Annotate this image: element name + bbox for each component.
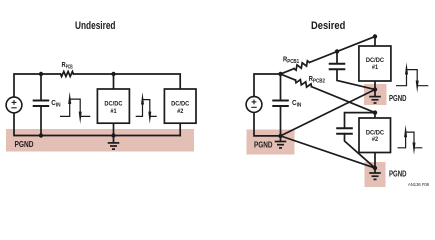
svg-text:#1: #1 <box>372 64 379 71</box>
wire: decoupling cap C1 top stub <box>336 52 338 64</box>
junction: decoupling cap C1 tap on R_PCB1 trace <box>335 49 339 53</box>
switching current waveform glyph 1 <box>60 99 90 116</box>
pink highlight: star ground <box>247 130 295 155</box>
DC/DC converter #1 box (right) <box>359 46 391 81</box>
return trace PGND1 to star <box>281 90 376 136</box>
decoupling capacitor C1 plates <box>329 64 346 70</box>
junction: C_IN ground node <box>39 133 43 137</box>
svg-text:#1: #1 <box>110 108 117 115</box>
svg-text:AN136 F08: AN136 F08 <box>408 182 430 187</box>
wire: decoupling cap C2 bottom to PGND2 <box>345 134 376 168</box>
decoupling capacitor C2 plates <box>336 128 353 134</box>
junction: input node (source/C_IN/R_PCB1/R_PCB2) <box>278 72 282 76</box>
capacitor C_IN plates <box>33 101 50 107</box>
ground symbol PGND1 <box>369 90 381 104</box>
trace R_PCB1 lead-out to node above DC/DC #1 <box>310 37 376 63</box>
junction: DC/DC #1 input node <box>111 72 115 76</box>
switching waveform at DC/DC #1 output <box>396 70 428 86</box>
trace R_PCB1 lead-in <box>281 69 295 74</box>
ground symbol (left diagram) <box>108 136 120 150</box>
svg-text:DC/DC: DC/DC <box>171 101 190 108</box>
wire: C_IN top stub <box>280 74 282 100</box>
trace R_PCB2 lead-out to node above DC/DC #2 <box>312 87 376 113</box>
svg-text:Undesired: Undesired <box>75 20 116 32</box>
node: PGND2 <box>373 166 377 170</box>
wire: DC/DC #1 bottom stub <box>113 123 115 135</box>
wire: DC/DC #1 top stub <box>113 74 115 89</box>
node: PGND1 <box>373 87 377 91</box>
voltage source V1 <box>6 97 22 113</box>
capacitor C_IN (right) plates <box>272 101 289 107</box>
svg-text:DC/DC: DC/DC <box>366 57 385 64</box>
switching current waveform glyph 2 <box>136 100 157 117</box>
wire: DC/DC #1 bottom stub to PGND1 <box>374 81 376 90</box>
svg-text:#2: #2 <box>372 136 379 143</box>
svg-text:DC/DC: DC/DC <box>104 101 123 108</box>
wire: top rail right portion, corner down to DC/DC #2 top <box>74 74 181 89</box>
DC/DC converter #2 box <box>164 89 196 123</box>
wire: capacitor C_IN top stub <box>40 74 42 100</box>
wire: DC/DC #2 bottom stub <box>179 123 181 135</box>
wire: decoupling cap C2 top L <box>345 113 376 128</box>
resistor R_PCB zigzag <box>61 72 74 77</box>
wire: source top to input node <box>254 74 281 96</box>
node: star ground point <box>278 134 282 138</box>
junction: C_IN top node <box>39 72 43 76</box>
pink highlight: PGND #2 <box>365 162 386 187</box>
wire: DC/DC #2 input stub from node <box>374 113 376 118</box>
wire: top rail left portion to resistor <box>14 74 61 97</box>
svg-text:Desired: Desired <box>311 20 345 32</box>
wire: DC/DC #1 input stub from node <box>374 37 376 47</box>
DC/DC converter #2 box (right) <box>359 118 391 153</box>
wire: decoupling cap C1 bottom to PGND1 <box>337 69 375 89</box>
svg-text:PGND: PGND <box>254 141 273 150</box>
pink highlight: PGND #1 <box>364 84 387 105</box>
svg-text:PGND: PGND <box>15 140 34 149</box>
resistor R_PCB2 zigzag <box>296 80 312 88</box>
switching waveform at DC/DC #2 output <box>398 132 423 148</box>
wire: source bottom to star point <box>254 113 281 136</box>
resistor R_PCB1 zigzag <box>294 61 310 70</box>
wire: C_IN bottom stub to star <box>280 106 282 136</box>
wire: DC/DC #2 bottom stub to PGND2 <box>374 153 376 169</box>
junction: DC/DC #2 input node <box>373 110 377 114</box>
svg-text:PGND: PGND <box>389 170 407 179</box>
DC/DC converter #1 box <box>97 89 129 123</box>
junction: DC/DC #1 input node <box>373 34 377 38</box>
ground symbol at star point <box>275 136 287 148</box>
PGND copper plane highlight (pink band) <box>6 129 194 152</box>
wire: source bottom to ground rail <box>14 113 180 135</box>
voltage source V2 (right) <box>246 97 262 113</box>
trace R_PCB2 lead-in <box>281 74 296 80</box>
return trace PGND2 to star <box>281 136 376 168</box>
wire: capacitor C_IN bottom stub <box>40 106 42 136</box>
svg-text:#2: #2 <box>177 108 184 115</box>
ground symbol PGND2 <box>369 168 381 179</box>
junction: DC/DC #1 ground node <box>111 133 115 137</box>
svg-text:PGND: PGND <box>389 94 407 103</box>
